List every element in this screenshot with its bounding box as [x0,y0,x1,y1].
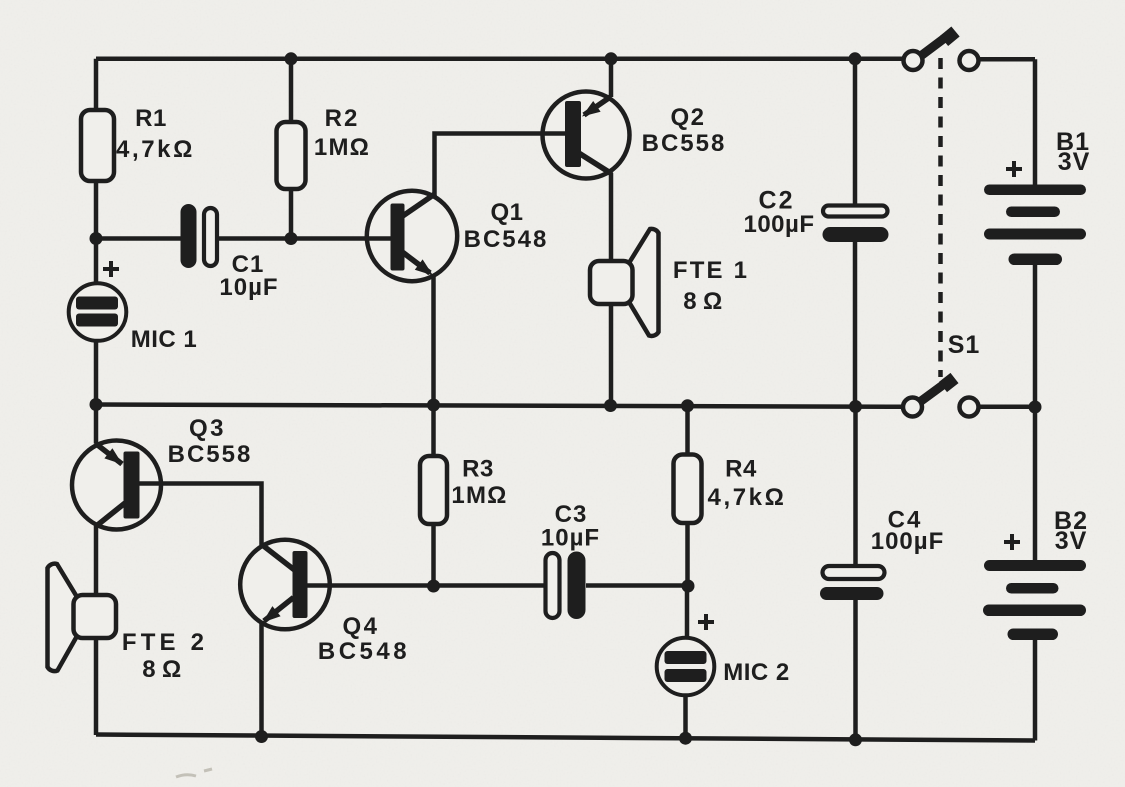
svg-text:4,7kΩ: 4,7kΩ [116,136,195,163]
svg-text:8Ω: 8Ω [683,288,729,315]
svg-text:100µF: 100µF [743,211,814,238]
svg-text:MIC 1: MIC 1 [131,326,198,353]
svg-text:100µF: 100µF [871,528,945,555]
svg-text:10µF: 10µF [219,274,278,301]
svg-text:Q1: Q1 [490,199,523,226]
svg-text:3V: 3V [1055,527,1088,555]
svg-text:Q3: Q3 [189,415,226,442]
svg-text:R4: R4 [725,456,757,483]
svg-text:Q4: Q4 [342,613,379,640]
svg-text:BC558: BC558 [168,441,253,468]
svg-text:FTE 1: FTE 1 [673,257,749,284]
svg-text:4,7kΩ: 4,7kΩ [708,484,787,511]
svg-text:BC548: BC548 [464,226,549,253]
svg-text:1MΩ: 1MΩ [451,482,507,509]
svg-text:R2: R2 [325,105,360,132]
svg-text:R3: R3 [462,456,494,483]
svg-text:BC548: BC548 [318,638,410,665]
svg-text:BC558: BC558 [642,130,727,157]
svg-text:3V: 3V [1058,148,1091,176]
svg-text:10µF: 10µF [541,525,600,552]
svg-text:R1: R1 [135,105,167,132]
svg-text:FTE 2: FTE 2 [122,629,208,656]
svg-text:S1: S1 [948,331,981,359]
svg-text:1MΩ: 1MΩ [314,134,370,161]
svg-text:8Ω: 8Ω [142,656,188,683]
svg-text:Q2: Q2 [670,104,705,131]
svg-text:MIC 2: MIC 2 [723,659,790,686]
